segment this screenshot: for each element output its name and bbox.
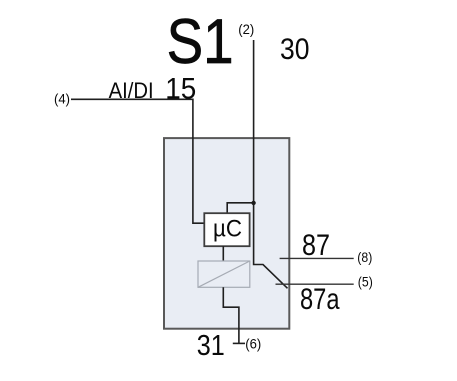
svg-text:15: 15 [165,72,196,105]
svg-text:(6): (6) [245,335,261,351]
svg-text:(2): (2) [238,21,254,37]
relay coil K1 [198,261,250,287]
wire terminal 87a contact [276,283,354,285]
svg-text:S1: S1 [167,7,234,77]
svg-text:30: 30 [280,33,310,66]
svg-text:87: 87 [302,229,330,262]
relay module body S1 [164,138,289,329]
wire 30 feed to microcontroller [227,203,253,213]
wire terminal 15 input to microcontroller [71,99,204,223]
microcontroller U1 box [204,213,249,246]
wire microcontroller to relay coil [222,246,224,261]
wire terminal 30 to relay contact common [254,40,288,288]
svg-text:AI/DI: AI/DI [109,78,154,103]
svg-text:87a: 87a [300,283,340,316]
terminal tick 31 [233,342,245,344]
svg-text:(8): (8) [357,249,372,265]
wire relay coil to terminal 31 [223,287,239,344]
svg-text:(4): (4) [54,91,70,107]
svg-text:(5): (5) [358,274,373,290]
wire terminal 87 contact [280,257,354,259]
junction node dot [251,201,255,205]
svg-text:µC: µC [213,216,242,243]
svg-text:31: 31 [197,330,225,362]
